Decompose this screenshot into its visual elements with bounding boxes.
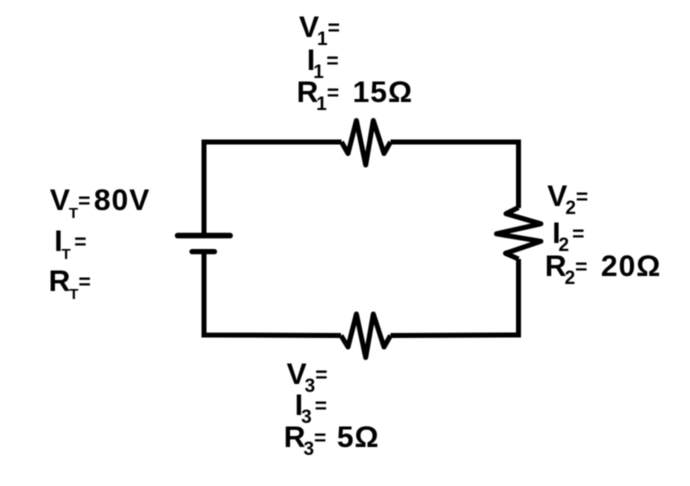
label RT= (total resistance) [49,267,91,302]
label IT= (total current) [54,227,86,262]
label VT= with value 80V (battery voltage) [50,186,150,221]
wire: top wire right + right wire upper (top-right corner junction) [391,142,519,208]
label I2= (R2 current) [552,219,584,253]
value label 15 ohm [353,76,413,109]
label V3= (R3 voltage) [287,360,328,394]
value label 5 ohm [337,421,380,454]
battery VT negative (short) plate [192,249,215,254]
wire: right wire lower + bottom wire right (bottom-right corner junction) [391,259,519,336]
value label 20 ohm [601,250,661,283]
label I1= (R1 current) [307,46,339,80]
label R2= with value 20 ohm [545,252,661,286]
label V1= (R1 voltage) [299,13,340,47]
resistor R3 [341,314,391,358]
label R3= with value 5 ohm [284,423,380,457]
label I3= (R3 current) [295,391,327,425]
wire: bottom wire left + left wire lower (bottom-left corner junction) [204,252,341,336]
resistor R2 [497,208,541,260]
value label 80V [94,184,150,217]
label R1= with value 15 ohm [297,78,413,112]
wire: upper-left segment (left wire upper half + top wire left, corner junction) [204,142,342,236]
resistor R1 [342,121,391,166]
label V2= (R2 voltage) [547,182,588,216]
battery VT positive (long) plate [178,233,231,239]
